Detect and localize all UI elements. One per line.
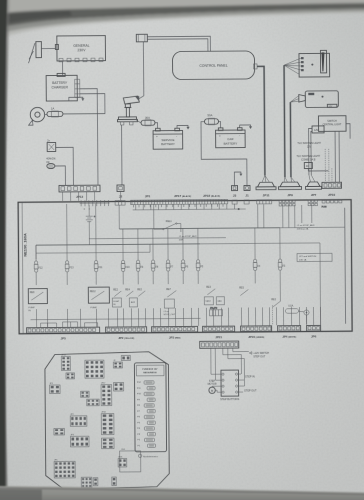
fuse 0.5A <box>285 305 309 316</box>
fuse F4 <box>253 243 261 283</box>
PCB block JP13 <box>61 354 70 370</box>
relay RE5 <box>239 287 248 295</box>
wire fan into JP11 <box>262 175 270 182</box>
svg-text:J2: J2 <box>113 360 115 362</box>
svg-text:12V: 12V <box>307 146 312 149</box>
wire main bus B <box>119 228 279 229</box>
PCB block conn <box>66 373 75 379</box>
svg-text:CHARGER: CHARGER <box>51 85 68 89</box>
svg-text:BATTERY: BATTERY <box>224 141 238 145</box>
wire central light to JP7 <box>309 128 313 175</box>
wire main bus D <box>36 244 150 253</box>
svg-text:LIGHT: LIGHT <box>113 301 120 303</box>
PCB relay area <box>120 451 141 472</box>
wire right edge bus <box>344 208 347 324</box>
wire sensor to cable <box>139 96 144 99</box>
svg-text:GAS: GAS <box>217 300 222 303</box>
svg-text:COMB. 1A B: COMB. 1A B <box>301 159 316 162</box>
svg-text:JP13: JP13 <box>61 354 65 356</box>
PCB block conn <box>54 428 65 435</box>
svg-text:JP13: JP13 <box>76 195 84 199</box>
switch central light <box>312 116 346 133</box>
connector JP2 strip <box>106 327 147 340</box>
connector JP13 <box>59 185 100 201</box>
connector J1 <box>244 185 250 197</box>
relay REL8 <box>28 289 47 313</box>
PCB block conn <box>112 477 117 486</box>
wire fuse50 to J1 <box>201 121 247 186</box>
svg-text:BATTERY: BATTERY <box>161 142 175 146</box>
wire jumper brackets JP5 <box>41 322 98 327</box>
svg-text:#2 on: #2 on <box>163 311 169 313</box>
wire fan into JP7 <box>309 175 315 182</box>
wire key fuse to bus <box>45 114 47 116</box>
fuse 50A <box>204 113 218 125</box>
svg-text:+: + <box>156 134 158 138</box>
PCB block JP2 <box>70 414 87 427</box>
wire internal bus under JP17 header <box>133 203 312 229</box>
svg-text:230V: 230V <box>77 48 86 52</box>
relay group RE2 RE4 RE2 <box>112 289 145 307</box>
wire dashed drop <box>271 305 273 325</box>
connector into radio <box>299 95 306 103</box>
svg-text:JP5: JP5 <box>54 459 57 461</box>
wire plate to J2 <box>120 125 122 185</box>
svg-text:PUMP: PUMP <box>28 307 35 309</box>
svg-text:JP18: JP18 <box>101 412 105 414</box>
fuse 1A <box>47 106 63 117</box>
svg-text:RE3: RE3 <box>206 287 211 289</box>
photo top shadow <box>0 0 364 40</box>
wire horn to JP13 <box>55 166 66 185</box>
svg-text:RE2: RE2 <box>113 289 118 291</box>
header JP13 pins <box>80 200 110 206</box>
svg-text:24V 1A: 24V 1A <box>299 258 307 261</box>
PCB block JP5 <box>54 459 75 478</box>
relay REL7 <box>163 289 176 316</box>
svg-text:RE8: RE8 <box>30 292 35 294</box>
svg-text:RE5: RE5 <box>239 288 244 290</box>
PCB block conn <box>81 477 92 488</box>
header JP11 pins <box>257 200 272 204</box>
wire fan into TV unit <box>284 58 301 75</box>
svg-text:12V: 12V <box>314 129 319 132</box>
main board NE190_160A outline <box>18 200 352 334</box>
PCB block JP3 <box>70 434 89 447</box>
svg-text:VENT: VENT <box>205 301 211 303</box>
connector JP11 <box>256 182 276 197</box>
PCB block conn <box>87 399 100 406</box>
PCB block conn <box>85 360 104 378</box>
wire fuse50 to car battery <box>218 121 220 128</box>
sensor base plate <box>117 117 137 125</box>
svg-text:4C: 4C <box>306 165 309 168</box>
wire main bus C <box>89 238 226 239</box>
note stop aux left <box>179 235 197 242</box>
wire radio to JP9 <box>289 102 292 177</box>
svg-text:J3: J3 <box>233 194 237 198</box>
svg-text:RE2: RE2 <box>271 299 276 301</box>
svg-text:REL1: REL1 <box>166 220 173 223</box>
svg-text:NE190/NE160: NE190/NE160 <box>143 372 157 374</box>
photo bottom band <box>0 486 364 500</box>
svg-text:JP7 and SWITCH: JP7 and SWITCH <box>299 256 317 258</box>
connector JP9 <box>278 182 301 197</box>
wire bus drop J2 <box>118 205 120 229</box>
control panel <box>172 51 257 80</box>
fuse 30A <box>141 116 155 126</box>
header JP7 pins <box>308 200 317 206</box>
header JP19 pins <box>322 200 342 208</box>
connector JP3 strip <box>152 326 198 339</box>
svg-text:AUX: AUX <box>131 301 136 304</box>
fuse F7 <box>166 244 174 284</box>
svg-text:50A: 50A <box>207 113 212 117</box>
wire control panel to JP11 <box>257 66 265 175</box>
PCB block JP21 <box>118 456 127 467</box>
svg-text:JP1: JP1 <box>50 383 53 385</box>
svg-text:Nordelettronica: Nordelettronica <box>143 455 159 458</box>
svg-text:JP11: JP11 <box>263 194 270 198</box>
wire connector down to sensor <box>142 42 144 96</box>
PCB block JP18 <box>101 412 114 435</box>
svg-text:JP17: JP17 <box>101 383 105 385</box>
svg-text:-: - <box>176 134 177 138</box>
svg-text:JP5: JP5 <box>61 337 67 341</box>
svg-text:JP21: JP21 <box>118 456 122 458</box>
fuse F8 <box>151 244 159 284</box>
svg-text:1A: 1A <box>51 106 55 110</box>
PCB block conn <box>121 355 130 360</box>
fuse F9 <box>136 244 144 284</box>
PCB block J2 <box>113 360 122 368</box>
svg-text:GENERAL: GENERAL <box>73 44 89 48</box>
relay RE2b <box>271 299 280 307</box>
PCB board outline <box>45 352 170 490</box>
svg-text:JP7: JP7 <box>311 193 317 197</box>
wire bottom bus <box>31 318 201 319</box>
TV unit U2 <box>299 50 330 77</box>
svg-text:RL1: RL1 <box>122 449 125 451</box>
svg-text:+12V SWITCH: +12V SWITCH <box>253 352 269 355</box>
label TLC soften light 12V <box>297 142 321 149</box>
switch box S1 <box>47 138 56 151</box>
connector JP19 <box>322 182 342 197</box>
wire charger bus down to JP13 <box>96 97 99 185</box>
connector J3 <box>231 186 237 198</box>
wire dashed to JP19 <box>325 149 332 182</box>
wire plate right to fuse30 <box>136 120 141 123</box>
fuse F5 <box>196 244 204 284</box>
svg-text:STEP OUT: STEP OUT <box>244 389 257 392</box>
svg-text:STEP BUTTONS: STEP BUTTONS <box>220 398 239 401</box>
wire fan into JP9 <box>284 177 295 182</box>
svg-text:RE7: RE7 <box>166 289 171 291</box>
PCB block conn <box>114 382 124 391</box>
PCB block conn <box>101 438 114 449</box>
wire switch to JP13 <box>56 147 74 185</box>
box GENERAL 230V <box>55 36 105 61</box>
connector CN1 to control panel <box>136 34 147 42</box>
connector JP4 strip <box>278 326 301 339</box>
svg-text:JP6: JP6 <box>311 335 317 339</box>
svg-text:-: - <box>239 134 240 138</box>
PCB block conn <box>81 391 90 397</box>
svg-text:#1 on STOP_AUX: #1 on STOP_AUX <box>179 235 197 238</box>
connector JP21 strip <box>203 326 235 339</box>
wire bus A drop left <box>35 245 37 259</box>
connector JP5 strip <box>27 327 100 341</box>
note JP7 switch box <box>297 253 332 261</box>
wire central light right to JP19 <box>346 124 350 139</box>
general box pin comb <box>59 58 103 62</box>
svg-text:STEP OUT: STEP OUT <box>253 356 265 359</box>
svg-text:BATTERY: BATTERY <box>52 81 68 85</box>
svg-text:FUSE BOX 12V: FUSE BOX 12V <box>142 369 158 371</box>
wire comb box to JP19 <box>308 168 328 171</box>
header JP8 mini <box>209 308 222 316</box>
wire service battery chassis hook <box>177 125 190 129</box>
connector JP21 external <box>200 341 239 348</box>
PCB block JP1 <box>50 383 61 394</box>
svg-text:MOTOR: MOTOR <box>208 383 217 386</box>
fuse F12 <box>34 245 43 285</box>
svg-text:RE12: RE12 <box>90 291 96 293</box>
label TLC soften light comb <box>296 155 320 169</box>
battery symbol B1 <box>86 205 96 245</box>
connector J2 <box>117 185 124 201</box>
svg-text:+: + <box>219 134 221 138</box>
wire inner left border <box>22 202 23 333</box>
fuse F13 <box>65 245 74 285</box>
svg-text:24Vmax 2A: 24Vmax 2A <box>297 228 309 231</box>
radio unit U3 <box>305 91 338 108</box>
wire main bus A <box>36 244 200 245</box>
svg-text:CONTROL PANEL: CONTROL PANEL <box>199 64 227 68</box>
wire J3 chassis hook <box>234 172 242 186</box>
connector JP7 <box>305 182 321 197</box>
connector JP16 strip <box>241 326 272 339</box>
wire TV unit to JP9 <box>283 65 286 177</box>
svg-text:STOP_OUT: STOP_OUT <box>164 314 176 316</box>
car battery <box>216 128 246 148</box>
fuse F3 <box>278 243 286 283</box>
service battery <box>153 128 183 149</box>
key switch <box>28 107 44 125</box>
mains plug P <box>28 42 41 64</box>
svg-text:RE4: RE4 <box>125 289 130 291</box>
level sensor head <box>123 96 139 117</box>
header J3 J1 pins <box>232 200 249 204</box>
wire radio fan to bus <box>290 96 299 103</box>
relay RE3 <box>204 287 224 305</box>
fuse F10 <box>121 244 130 284</box>
svg-text:J1: J1 <box>245 194 249 198</box>
svg-text:JP9: JP9 <box>287 193 293 197</box>
relay REL12 <box>88 287 109 309</box>
PCB block JP17 <box>101 383 112 406</box>
wire fuse30 to service battery <box>155 123 158 129</box>
svg-text:30A: 30A <box>145 116 150 120</box>
svg-text:JP3: JP3 <box>70 434 73 436</box>
svg-text:RE2: RE2 <box>137 289 142 291</box>
wire drops to fuses <box>67 202 280 245</box>
svg-text:CENTRAL LIGHT: CENTRAL LIGHT <box>323 123 342 126</box>
svg-text:JP2: JP2 <box>70 414 73 416</box>
wire plug to general box <box>41 47 55 49</box>
wire car battery chassis hook <box>240 125 252 129</box>
PCB block conn <box>93 478 98 486</box>
battery charger <box>46 73 80 101</box>
wire charger output stub with arrow <box>69 97 83 101</box>
svg-text:JP1: JP1 <box>145 194 151 198</box>
wire JP21 to step circuit <box>211 348 249 386</box>
svg-text:12V: 12V <box>328 106 332 108</box>
cable connector to control panel (double line) <box>147 36 210 51</box>
svg-text:JP21: JP21 <box>215 335 222 339</box>
header J2 pins <box>115 200 125 205</box>
svg-text:STEP IN: STEP IN <box>245 375 255 378</box>
svg-text:NE190_160A: NE190_160A <box>22 233 27 257</box>
fuse F6 <box>181 244 189 284</box>
svg-text:#1 on STOP_AUX: #1 on STOP_AUX <box>297 224 315 227</box>
horn <box>46 156 55 168</box>
wire right bus extend <box>200 242 320 245</box>
fuse panel <box>134 363 166 459</box>
wire relay drops to strips <box>36 307 320 327</box>
relay REL1 <box>163 220 177 230</box>
wire charger to bus right <box>80 89 98 97</box>
fuse F11 <box>94 245 103 285</box>
wire general to charger <box>62 62 64 75</box>
svg-text:JP8-JP9: JP8-JP9 <box>210 308 217 310</box>
step motor M <box>208 380 219 394</box>
svg-text:0.5A: 0.5A <box>288 305 293 308</box>
photo left dark edge <box>0 0 11 500</box>
connector JP6 strip <box>307 325 321 338</box>
note +12V switch step out <box>249 352 269 359</box>
svg-text:JP19: JP19 <box>328 193 336 197</box>
header JP9 pins <box>279 200 295 206</box>
step control box U4 <box>218 370 241 396</box>
header JP1-JP17-JP18 pins <box>131 199 228 207</box>
wire REL1 to bus <box>154 204 163 230</box>
note stop aux right <box>297 224 315 231</box>
